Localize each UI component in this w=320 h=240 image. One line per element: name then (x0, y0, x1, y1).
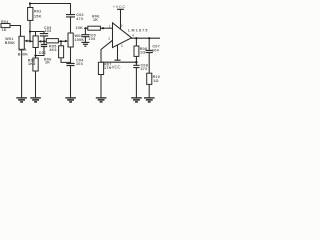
wire input R04 to W01 (10, 26, 21, 37)
wire W01 bottom to ground (21, 50, 23, 98)
wire output line (132, 37, 161, 39)
capacitor C08 (133, 65, 139, 67)
wire signal C03 to R05 (44, 40, 46, 42)
svg-text:103: 103 (76, 62, 83, 66)
svg-text:-VCC: -VCC (110, 64, 120, 69)
svg-text:1: 1 (109, 25, 111, 29)
svg-text:1Ω: 1Ω (140, 50, 146, 54)
svg-text:2: 2 (108, 37, 110, 41)
svg-text:B50K: B50K (5, 41, 16, 45)
ground R07 (96, 98, 107, 102)
svg-text:100K: 100K (75, 38, 85, 42)
wire W03 bottom (70, 47, 72, 63)
svg-text:LM1875: LM1875 (128, 28, 149, 32)
wire C03 bottom (43, 36, 45, 41)
resistor R05 (46, 39, 58, 43)
wire +VCC to op-amp pin5 (118, 9, 124, 28)
resistor R10 (147, 73, 152, 84)
wire C02 top (70, 4, 72, 15)
junction node B (29, 30, 31, 32)
svg-text:4: 4 (132, 34, 134, 38)
junction node A (29, 40, 31, 42)
wire R03 bottom to ground (35, 71, 37, 97)
svg-text:3: 3 (121, 44, 123, 48)
wiper arrow W03 (65, 40, 68, 43)
svg-text:103: 103 (45, 29, 52, 33)
junction node E (34, 54, 36, 56)
svg-text:1K3: 1K3 (28, 62, 36, 66)
svg-text:104: 104 (152, 49, 160, 53)
svg-text:B50K: B50K (18, 53, 29, 57)
svg-text:473: 473 (76, 17, 83, 21)
ground C04 (65, 98, 76, 102)
capacitor C05 (81, 35, 89, 37)
svg-text:15K: 15K (34, 14, 42, 18)
wire C05 top (84, 28, 86, 34)
resistor R04 (1, 24, 10, 28)
wire R10 bottom to ground (148, 84, 150, 97)
wire R05 to node D (58, 40, 61, 42)
wiper arrow W01 (24, 40, 27, 43)
svg-text:103: 103 (88, 37, 95, 41)
svg-text:R02: R02 (34, 10, 42, 14)
junction node F (84, 27, 86, 29)
wire C02 to W03 (70, 17, 72, 33)
potentiometer W03 (68, 33, 73, 47)
wire node F to R06h (85, 27, 87, 29)
ground W01 (16, 98, 27, 102)
junction node G (102, 27, 104, 29)
ground C05 (81, 42, 89, 46)
wire pin2 jog down (101, 40, 113, 62)
wire W01 wiper (26, 40, 30, 42)
wire R06v top (60, 41, 62, 46)
wire R08 bottom (135, 56, 137, 62)
svg-text:+VCC: +VCC (113, 4, 126, 9)
wire feedback line (101, 61, 136, 63)
wire W02 bottom (35, 48, 37, 59)
resistor R03 (33, 58, 38, 71)
junction node C (43, 40, 45, 42)
wire top rail (30, 3, 71, 5)
wire R07 bottom to ground (100, 75, 102, 98)
wire C05 bottom (84, 37, 86, 43)
ground R10 (144, 98, 155, 102)
wire W02 wiper (30, 40, 44, 42)
svg-text:5: 5 (120, 24, 122, 28)
wire C06 bottom to node E (36, 47, 45, 56)
wire C07 top (148, 38, 150, 50)
wire C07 to R10 (148, 53, 150, 74)
svg-text:10K: 10K (76, 26, 84, 30)
capacitor C04 (66, 64, 74, 66)
wire node C06 top (43, 41, 45, 44)
wire op-amp pin3 to -VCC (115, 45, 120, 60)
wire R06h to op-amp pin1 (100, 27, 112, 29)
svg-text:472: 472 (141, 67, 148, 71)
svg-text:1K: 1K (2, 28, 7, 32)
svg-text:4K3: 4K3 (49, 48, 57, 52)
wire W03 wiper (61, 40, 66, 42)
svg-text:1Ω: 1Ω (153, 79, 159, 83)
junction node D (60, 40, 62, 42)
junction output node (135, 37, 137, 39)
wire R06v bottom jog (61, 58, 71, 63)
wire C04 bottom to ground (70, 66, 72, 98)
svg-text:1K: 1K (93, 18, 98, 22)
capacitor C02 (66, 15, 75, 17)
junction node rail-R02 (29, 2, 31, 4)
wiper arrow W02 (38, 40, 41, 43)
ground R03 (30, 98, 41, 102)
wire R02 column (29, 4, 31, 42)
ground C08 (131, 98, 142, 102)
junction feedback node (135, 61, 137, 63)
potentiometer W01 (19, 36, 24, 49)
resistor R02 (28, 8, 33, 21)
capacitor C03 (40, 34, 48, 36)
capacitor C06 (41, 45, 47, 47)
wire node B line (30, 32, 44, 34)
svg-text:R04: R04 (1, 20, 9, 24)
potentiometer W02 (33, 36, 38, 48)
capacitor C07 (146, 50, 153, 52)
resistor R06v (59, 46, 64, 58)
resistor R07 (98, 62, 103, 74)
svg-text:1K: 1K (45, 61, 50, 65)
svg-text:C06: C06 (39, 51, 47, 55)
wire R08 top (135, 38, 137, 46)
resistor R08 (134, 46, 139, 56)
resistor R06h (88, 26, 101, 30)
junction output node 2 (148, 37, 150, 39)
op-amp U1 LM1875 (113, 23, 132, 48)
wire C08 column to ground (135, 62, 137, 97)
wire W02 top stub (35, 32, 37, 36)
